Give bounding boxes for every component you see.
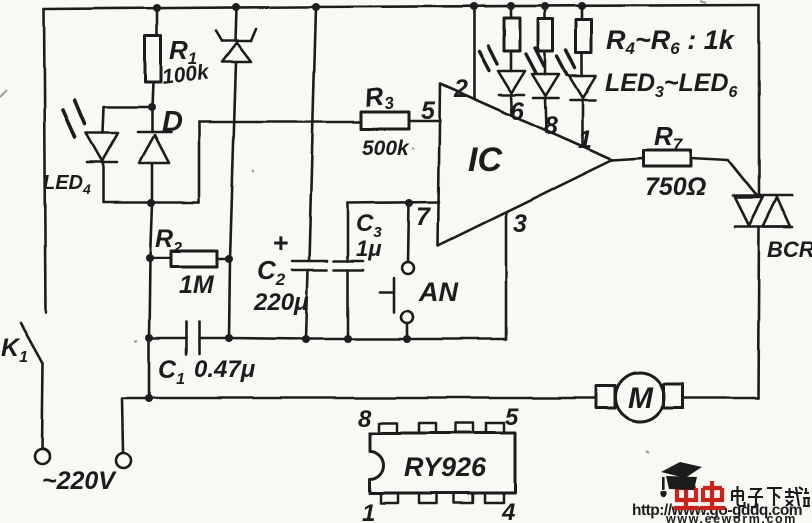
wire top rail [44,5,759,9]
wire pin3 [505,213,508,339]
svg-text:~220V: ~220V [42,467,117,495]
svg-text:5: 5 [505,404,519,431]
capacitor C2 [309,7,316,261]
svg-text:R3: R3 [363,79,396,116]
svg-text:K1: K1 [1,334,28,366]
LED4b [532,74,559,96]
resistor R2 [150,257,171,260]
svg-text:BCR: BCR [767,237,812,262]
wire right rail [758,5,761,196]
light rays LED5 [557,56,567,75]
wire mid bottom [229,338,506,339]
svg-text:3: 3 [513,210,527,238]
svg-text:AN: AN [418,277,458,307]
triac BCR [733,195,792,198]
wire D column down [149,203,152,398]
svg-text:IC: IC [468,141,502,179]
wire from terminal to bottom rail [122,398,596,453]
svg-text:8: 8 [544,112,558,140]
wire motor right to rail [684,397,758,400]
svg-text:LED3~LED6: LED3~LED6 [605,69,738,101]
light rays LED4 [63,110,75,137]
wire right rail lower [758,227,759,398]
wire left rail [44,9,46,313]
svg-text:7: 7 [416,203,431,231]
svg-text:2: 2 [453,75,468,103]
svg-text:220μ: 220μ [253,289,309,316]
svg-text:M: M [628,382,654,415]
svg-text:750Ω: 750Ω [645,173,706,201]
pushbutton AN [408,203,409,262]
svg-text:6: 6 [510,98,525,126]
IC RY926 body [370,433,515,493]
watermark grad cap [661,462,703,497]
motor M [616,373,665,422]
resistor R4 [510,7,513,18]
svg-text:1μ: 1μ [356,236,382,261]
svg-text:5: 5 [421,97,436,125]
diode D [151,107,154,132]
wire pin2 [473,7,476,99]
svg-text:RY926: RY926 [404,452,487,482]
LED5 [569,76,596,98]
wire to R3 (step up) [199,122,361,202]
zener diode [235,7,236,41]
paper specks [0,1,706,453]
watermark chongchong red [674,481,725,508]
resistor R1 [156,7,159,36]
switch K1 [21,323,43,363]
svg-text:www.eeworm.com: www.eeworm.com [665,512,797,523]
svg-text:+: + [273,228,289,258]
capacitor C3 [347,203,350,261]
svg-text:1: 1 [578,126,592,154]
capacitor C1 [149,337,186,340]
svg-text:1M: 1M [179,271,215,299]
light rays LED3 [479,52,489,71]
LED4 photodiode [103,107,104,133]
svg-text:100k: 100k [161,60,211,89]
svg-text:1: 1 [362,500,375,523]
LED3 [498,71,525,93]
light rays LED4b [526,54,536,73]
watermark [632,462,810,523]
resistor R3 [361,112,409,129]
svg-text:LED4: LED4 [43,172,91,197]
watermark cn text [732,486,810,507]
svg-text:8: 8 [358,406,372,433]
wire LED-D loop bottom [104,201,199,204]
svg-text:R4~R6 : 1k: R4~R6 : 1k [606,25,736,58]
svg-text:C1: C1 [158,356,185,388]
resistor R6 [581,7,584,20]
svg-text:D: D [162,106,183,138]
resistor R7 [612,158,644,160]
RY926 pins top [379,423,397,433]
svg-text:R2: R2 [155,225,182,257]
wire R7 to triac gate [728,160,757,196]
wire LED-D loop top [104,106,152,109]
svg-text:R7: R7 [654,121,684,154]
node terminal 220V right [116,454,131,469]
RY926 pins bottom [381,493,398,503]
wire pin7 line [348,202,439,203]
op-amp IC triangle [438,84,612,245]
svg-text:C2: C2 [257,255,286,289]
svg-text:4: 4 [501,499,515,523]
resistor R5 [544,7,547,19]
svg-text:0.47μ: 0.47μ [194,356,256,383]
svg-text:500k: 500k [362,137,410,160]
